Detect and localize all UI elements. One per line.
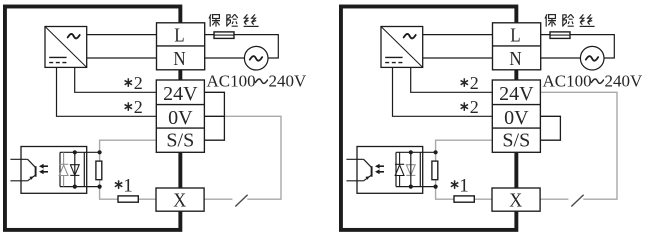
terminal X box xyxy=(156,188,204,211)
AC/DC power supply unit xyxy=(45,27,87,68)
input resistor (vertical) xyxy=(432,161,438,180)
terminal block L/N xyxy=(157,23,205,70)
svg-text:X: X xyxy=(173,190,186,212)
svg-text:2: 2 xyxy=(134,73,143,93)
wire converter to L xyxy=(87,34,157,36)
PLC enclosure frame xyxy=(5,7,180,230)
svg-text:N: N xyxy=(173,48,185,71)
svg-text:240V: 240V xyxy=(605,71,644,90)
note *2 (24V wire) xyxy=(125,73,143,93)
wire from 24V terminal to switch (gray loop) xyxy=(540,92,617,199)
input switch contact xyxy=(235,195,247,207)
LED bridge top rail xyxy=(396,151,436,153)
wire converter to 24V terminal xyxy=(75,67,157,92)
LED diode up xyxy=(395,152,404,186)
LED diode down xyxy=(70,165,79,176)
junction node LED bottom xyxy=(73,185,77,189)
wire L to fuse to AC source xyxy=(205,35,279,58)
wire converter to 0V terminal xyxy=(57,67,158,116)
terminal L label xyxy=(174,24,184,47)
svg-text:S/S: S/S xyxy=(502,129,530,151)
LED diode down xyxy=(406,165,415,176)
wire converter to 24V terminal xyxy=(411,67,493,92)
terminal block L/N xyxy=(493,23,541,70)
input resistor (vertical) xyxy=(96,161,102,180)
svg-text:2: 2 xyxy=(470,73,479,93)
terminal block 24V/0V/S/S xyxy=(492,80,540,152)
resistor *1 (series) xyxy=(118,196,138,202)
optocoupler package box xyxy=(21,147,87,194)
wire L to fuse to AC source xyxy=(541,35,615,58)
fuse label 保险丝 xyxy=(545,14,595,26)
svg-text:0V: 0V xyxy=(504,107,529,129)
wire converter to L xyxy=(423,34,493,36)
jumper bracket 24V-0V-S/S xyxy=(204,92,224,140)
left diagram (sink wiring) xyxy=(5,7,307,230)
junction node LED top xyxy=(73,150,77,154)
LED through wire xyxy=(74,152,76,186)
note *1 label xyxy=(451,176,469,197)
LED bridge top rail xyxy=(60,151,100,153)
wire N to AC source xyxy=(541,57,581,59)
terminal 24V label xyxy=(499,83,534,105)
LED bridge bottom rail xyxy=(60,186,100,188)
phototransistor xyxy=(346,159,371,181)
wire S/S jumper bus (gray loop from 0V rung to switch) xyxy=(224,116,281,199)
terminal S/S label xyxy=(502,129,530,151)
fuse symbol xyxy=(214,32,234,39)
AC100-240V label xyxy=(207,71,308,90)
svg-text:X: X xyxy=(509,190,522,212)
terminal 0V label xyxy=(504,107,529,129)
input switch contact xyxy=(571,195,583,207)
right diagram (source wiring) xyxy=(341,7,643,230)
svg-text:240V: 240V xyxy=(269,71,308,90)
svg-text:24V: 24V xyxy=(163,83,198,105)
svg-text:1: 1 xyxy=(459,176,469,197)
jumper bracket 0V-S/S xyxy=(540,116,560,140)
AC source symbol xyxy=(580,46,604,70)
wire N to AC source xyxy=(205,57,245,59)
terminal X label xyxy=(173,190,186,212)
svg-text:AC100: AC100 xyxy=(207,71,256,90)
svg-text:S/S: S/S xyxy=(166,129,194,151)
svg-text:24V: 24V xyxy=(499,83,534,105)
optocoupler package box xyxy=(357,147,423,194)
AC/DC power supply unit xyxy=(381,27,423,68)
svg-text:L: L xyxy=(510,24,520,47)
svg-text:L: L xyxy=(174,24,184,47)
terminal N label xyxy=(173,48,185,71)
svg-text:2: 2 xyxy=(134,97,143,117)
note *1 label xyxy=(115,176,133,197)
wire S/S to input circuit (gray) xyxy=(100,140,157,199)
terminal 0V label xyxy=(168,107,193,129)
phototransistor xyxy=(10,159,35,181)
LED bridge side rails xyxy=(60,152,84,186)
AC source symbol xyxy=(244,46,268,70)
wire X terminal to switch xyxy=(540,198,568,200)
junction node top xyxy=(434,150,438,154)
junction node bottom xyxy=(98,185,102,189)
svg-text:AC100: AC100 xyxy=(543,71,592,90)
note *2 (0V wire) xyxy=(125,97,143,117)
terminal L label xyxy=(510,24,520,47)
terminal block 24V/0V/S/S xyxy=(156,80,204,152)
terminal X box xyxy=(492,188,540,211)
terminal S/S label xyxy=(166,129,194,151)
fuse label 保险丝 xyxy=(209,14,259,26)
LED bridge side rails xyxy=(396,152,420,186)
junction node LED top xyxy=(409,150,413,154)
LED diode up xyxy=(59,152,68,186)
svg-text:2: 2 xyxy=(470,97,479,117)
junction node bottom xyxy=(434,185,438,189)
light emission arrows xyxy=(375,164,384,174)
wire S/S to input circuit (gray) xyxy=(436,140,493,199)
wire converter to N xyxy=(423,57,493,59)
PLC enclosure frame xyxy=(341,7,516,230)
wire converter to 0V terminal xyxy=(393,67,494,116)
light emission arrows xyxy=(39,164,48,174)
wire X terminal to switch xyxy=(204,198,232,200)
wire converter to N xyxy=(87,57,157,59)
junction node LED bottom xyxy=(409,185,413,189)
note *2 (0V wire) xyxy=(461,97,479,117)
LED through wire xyxy=(410,152,412,186)
junction node top xyxy=(98,150,102,154)
svg-text:N: N xyxy=(509,48,521,71)
fuse symbol xyxy=(550,32,570,39)
terminal 24V label xyxy=(163,83,198,105)
LED bridge bottom rail xyxy=(396,186,436,188)
svg-text:0V: 0V xyxy=(168,107,193,129)
terminal X label xyxy=(509,190,522,212)
note *2 (24V wire) xyxy=(461,73,479,93)
AC100-240V label xyxy=(543,71,644,90)
resistor *1 (series) xyxy=(454,196,474,202)
terminal N label xyxy=(509,48,521,71)
svg-text:1: 1 xyxy=(123,176,133,197)
